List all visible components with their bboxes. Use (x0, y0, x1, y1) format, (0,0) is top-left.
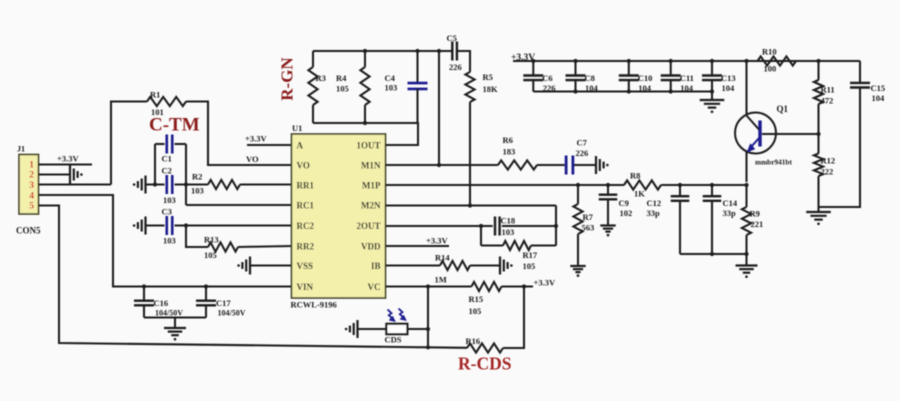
svg-text:105: 105 (336, 84, 349, 94)
svg-text:33p: 33p (647, 208, 661, 218)
wire VC node down to CDS (426, 287, 430, 350)
ground (CDS) (345, 320, 358, 338)
wire R15 to +3.3V (502, 284, 534, 288)
svg-text:M1N: M1N (361, 161, 381, 171)
label C6 (542, 73, 555, 93)
label RCWL-9196 (291, 300, 337, 310)
capacitor C14 (703, 185, 722, 254)
pin label M2N (361, 201, 381, 211)
pin label VIN (297, 282, 314, 292)
svg-text:IB: IB (371, 261, 381, 271)
pin label RR2 (297, 242, 315, 252)
power flag +3.3V (A pin) (245, 134, 267, 144)
svg-text:RC2: RC2 (297, 221, 315, 231)
svg-text:R-CDS: R-CDS (458, 354, 511, 374)
wire C16-C17 bottom (144, 316, 206, 318)
ground (C13) (700, 92, 725, 114)
pin label VO (297, 161, 310, 171)
ground (C9) (600, 226, 615, 237)
svg-text:C9: C9 (619, 198, 629, 208)
svg-text:102: 102 (620, 208, 633, 218)
wire C7 to ground (574, 164, 596, 166)
svg-text:33p: 33p (723, 208, 737, 218)
svg-text:R15: R15 (469, 294, 484, 304)
pin label IB (371, 261, 381, 271)
svg-text:R5: R5 (483, 72, 493, 82)
capacitor C12 (671, 185, 690, 254)
label R13 (204, 235, 219, 261)
wire VDD to +3.3V (386, 245, 450, 247)
svg-text:+3.3V: +3.3V (426, 236, 448, 246)
svg-text:3: 3 (29, 181, 34, 191)
wire +3.3V to A pin (247, 144, 292, 146)
svg-text:R12: R12 (821, 156, 836, 166)
label R6 (503, 135, 516, 157)
wire R1 left leg (111, 102, 147, 185)
label C8 (585, 73, 599, 93)
svg-text:104/50V: 104/50V (218, 309, 246, 318)
ground (R7) (570, 266, 585, 277)
svg-text:R13: R13 (204, 235, 219, 245)
svg-text:1: 1 (29, 161, 34, 171)
label Q1 (777, 104, 789, 114)
label C7 (576, 138, 589, 159)
resistor R12 (814, 134, 823, 212)
svg-text:R9: R9 (750, 209, 760, 219)
svg-text:C15: C15 (871, 83, 886, 93)
transistor Q1 base bar (758, 121, 761, 147)
svg-text:C14: C14 (723, 198, 738, 208)
pin label 2OUT (356, 221, 380, 231)
label C12 (647, 198, 662, 218)
wire R16 to VC (503, 287, 524, 349)
svg-text:C8: C8 (585, 73, 595, 83)
label R5 (483, 72, 499, 94)
svg-text:R-GN: R-GN (278, 57, 297, 101)
label C1 (162, 154, 172, 164)
svg-text:+3.3V: +3.3V (245, 134, 267, 144)
svg-text:R11: R11 (821, 85, 835, 95)
label R3 (316, 73, 326, 83)
capacitor C10 (619, 59, 639, 94)
svg-text:C3: C3 (162, 207, 172, 217)
svg-text:R7: R7 (583, 212, 594, 222)
wire C5 to R5 (457, 51, 470, 72)
label R11 (821, 85, 835, 106)
svg-text:C4: C4 (385, 73, 396, 83)
svg-text:VC: VC (368, 282, 381, 292)
wire J1 pin5 bottom rail (39, 206, 468, 348)
resistor R5 (465, 72, 474, 102)
capacitor C6 (523, 59, 543, 92)
resistor R16 (467, 343, 503, 352)
svg-text:CDS: CDS (385, 335, 402, 345)
svg-text:C2: C2 (162, 166, 172, 176)
pin label A (297, 141, 304, 151)
svg-text:VO: VO (297, 161, 310, 171)
svg-text:VO: VO (246, 154, 259, 164)
svg-text:+3.3V: +3.3V (534, 278, 556, 288)
svg-text:R3: R3 (316, 73, 326, 83)
svg-text:C-TM: C-TM (149, 115, 200, 136)
label R7 (582, 212, 595, 233)
wire M1N to R6 (386, 164, 499, 166)
pin label M1P (362, 181, 381, 191)
resistor R4 (360, 49, 369, 125)
svg-text:1M: 1M (435, 275, 447, 285)
wire C12/C14/R9 bottom rail (680, 252, 749, 256)
svg-text:R6: R6 (503, 135, 513, 145)
wire R1 to VO pin (186, 102, 292, 166)
svg-text:2OUT: 2OUT (356, 221, 380, 231)
capacitor C1 (155, 135, 186, 154)
resistor R1 (147, 97, 186, 106)
capacitor C15 (819, 61, 871, 207)
wire J1 pin3 to R1 branch (39, 183, 112, 185)
resistor R11 (814, 59, 823, 136)
node C18/R17 right bar (555, 206, 557, 246)
label C13 (721, 73, 736, 93)
ground (C3 left) (133, 217, 146, 235)
svg-text:R16: R16 (466, 336, 481, 346)
transistor Q1 emitter stroke (747, 137, 760, 153)
svg-text:18K: 18K (483, 84, 499, 94)
resistor R3 (308, 51, 317, 123)
capacitor C7 (566, 156, 573, 175)
svg-text:226: 226 (576, 148, 589, 158)
svg-text:CON5: CON5 (16, 226, 41, 236)
wire R14 to ground (470, 264, 500, 266)
svg-text:C13: C13 (721, 73, 736, 83)
svg-text:103: 103 (163, 195, 176, 205)
svg-text:222: 222 (821, 167, 834, 177)
svg-text:C18: C18 (501, 216, 516, 226)
wire R-GN bottom rail to 1OUT (313, 123, 418, 145)
svg-text:226: 226 (449, 62, 462, 72)
label C9 (619, 198, 633, 218)
wire Q1 emitter down (745, 151, 747, 182)
svg-text:J1: J1 (17, 145, 25, 154)
svg-text:RC1: RC1 (297, 201, 315, 211)
wire C3 node down to R13 (186, 226, 208, 248)
label C3 (162, 207, 176, 246)
label R10 (762, 47, 777, 74)
svg-text:VDD: VDD (361, 242, 381, 252)
resistor R7 (573, 185, 582, 266)
svg-text:104/50V: 104/50V (155, 309, 183, 318)
label CDS (385, 335, 402, 345)
svg-text:R14: R14 (435, 253, 450, 263)
ground (VSS) (237, 257, 250, 275)
pin label RC1 (297, 201, 315, 211)
node C1C2 right bar (184, 144, 188, 205)
svg-text:104: 104 (722, 83, 736, 93)
label R2 (191, 172, 204, 196)
svg-text:103: 103 (502, 227, 515, 237)
pin label RC2 (297, 221, 315, 231)
svg-text:R4: R4 (336, 73, 347, 83)
svg-text:R2: R2 (192, 172, 202, 182)
svg-text:M2N: M2N (361, 201, 381, 211)
photoresistor CDS body (386, 324, 407, 334)
label U1 (292, 123, 302, 133)
svg-text:R8: R8 (630, 171, 640, 181)
svg-text:2: 2 (29, 171, 34, 181)
wire J1 pin2 to ground (39, 173, 71, 175)
svg-text:R17: R17 (523, 250, 538, 260)
svg-text:104: 104 (872, 93, 886, 103)
capacitor C4 (408, 49, 428, 123)
wire R8 to Q1 emitter node (661, 183, 749, 187)
svg-text:105: 105 (204, 250, 217, 260)
svg-text:105: 105 (469, 306, 482, 316)
resistor R9 (742, 185, 751, 265)
label R8 (630, 171, 645, 199)
wire M2N line (386, 204, 557, 206)
transistor Q1 body (735, 113, 776, 154)
label C14 (723, 198, 738, 218)
svg-text:Q1: Q1 (777, 104, 789, 114)
label C11 (680, 73, 694, 93)
wire J1 pin1 to +3.3V (39, 163, 93, 165)
label R-CDS (458, 354, 511, 374)
wire R6 to C7 (537, 164, 565, 166)
label C-TM (149, 115, 200, 136)
capacitor C17 (196, 284, 216, 317)
power flag +3.3V (rail) (511, 53, 535, 63)
pin label VDD (361, 242, 381, 252)
capacitor C5 (447, 33, 462, 72)
wire R2 to RR1 (240, 183, 292, 185)
svg-text:C10: C10 (638, 73, 653, 83)
svg-text:C6: C6 (542, 73, 552, 83)
transistor Q1 collector stroke (747, 116, 760, 130)
wire IB to R14 (386, 264, 441, 266)
svg-text:472: 472 (821, 96, 834, 106)
svg-text:U1: U1 (292, 123, 302, 133)
resistor R13 (208, 242, 238, 251)
svg-text:100: 100 (764, 64, 777, 74)
ground (J1 pin2) (70, 166, 83, 184)
svg-text:VIN: VIN (297, 282, 314, 292)
wire to RC1 (186, 204, 292, 206)
J1 pin numbers 1-5 (29, 161, 34, 212)
svg-text:103: 103 (385, 83, 398, 93)
resistor R14 (440, 261, 470, 270)
svg-text:C16: C16 (154, 298, 169, 308)
svg-text:mmbr941bt: mmbr941bt (755, 158, 792, 167)
svg-text:M1P: M1P (362, 181, 381, 191)
pin label M1N (361, 161, 381, 171)
op-amp U1 RCWL-9196 body (292, 134, 386, 298)
wire M1P line (386, 183, 625, 187)
photoresistor CDS light arrows (388, 309, 407, 323)
label C2 (162, 166, 172, 176)
label VO (246, 154, 259, 164)
wire ground to C2 (146, 183, 165, 185)
wire ground to CDS (358, 328, 387, 330)
wire rail branch to M1N (437, 49, 441, 167)
wire rail to Q1 collector (744, 59, 748, 116)
capacitor C9 (599, 185, 618, 226)
label R12 (821, 156, 836, 177)
wire R13 to RR2 (238, 246, 292, 247)
power flag +3.3V (J1) (57, 154, 79, 164)
label R17 (523, 250, 538, 271)
label R4 (336, 73, 349, 94)
svg-text:1OUT: 1OUT (356, 141, 380, 151)
connector J1 (CON5) (16, 145, 41, 236)
wire 2OUT line (386, 224, 493, 228)
capacitor C13 (702, 59, 722, 94)
ground (C2 left) (133, 176, 146, 194)
wire R5 to M2N line (468, 102, 472, 208)
label R-GN (278, 57, 297, 101)
svg-text:+3.3V: +3.3V (57, 154, 79, 164)
wire ground to C3 (146, 224, 165, 226)
svg-text:C11: C11 (680, 73, 694, 83)
label R15 (469, 294, 484, 316)
label C18 (501, 216, 516, 238)
label R16 (466, 336, 481, 346)
ground (IB) (500, 257, 513, 275)
svg-text:C12: C12 (647, 198, 662, 208)
pin label RR1 (297, 181, 315, 191)
svg-text:C7: C7 (577, 138, 588, 148)
power flag +3.3V (VC) (534, 278, 556, 288)
resistor R10 (758, 56, 797, 65)
capacitor C2 (167, 175, 208, 194)
capacitor C3 (167, 216, 292, 235)
label C10 (638, 73, 653, 93)
node C18/R17 left bar (480, 226, 482, 246)
svg-text:RCWL-9196: RCWL-9196 (291, 300, 337, 310)
svg-text:RR2: RR2 (297, 242, 315, 252)
pin label 1OUT (356, 141, 380, 151)
wire VC line (386, 284, 472, 288)
svg-text:A: A (297, 141, 304, 151)
label C17 (216, 298, 246, 318)
svg-text:563: 563 (582, 223, 595, 233)
svg-text:5: 5 (29, 202, 34, 212)
resistor R17 (481, 241, 556, 250)
resistor R8 (624, 180, 661, 189)
capacitor C16 (134, 284, 154, 317)
svg-text:C5: C5 (447, 33, 457, 43)
label R14 (435, 253, 451, 285)
resistor R6 (498, 160, 537, 169)
ground (R12/C15) (806, 212, 831, 225)
label R1 (150, 90, 164, 118)
svg-text:103: 103 (163, 236, 176, 246)
wire bypass bottom rail (533, 90, 712, 92)
svg-text:105: 105 (523, 261, 536, 271)
svg-text:183: 183 (503, 147, 516, 157)
wire J1 pin4 to VIN net (39, 195, 292, 287)
wire +3.3V rail (513, 60, 860, 62)
svg-text:103: 103 (191, 186, 204, 196)
node C1C2 left bar (153, 144, 157, 187)
capacitor C11 (661, 59, 681, 94)
label C2 value (163, 195, 176, 205)
label C16 (154, 298, 184, 318)
ground (R9) (736, 266, 758, 279)
svg-text:1K: 1K (634, 189, 645, 199)
svg-text:C1: C1 (162, 154, 172, 164)
label C4 (385, 73, 398, 93)
wire R-GN top rail (313, 50, 452, 52)
ground (C7) (596, 156, 609, 174)
svg-text:R10: R10 (762, 47, 777, 57)
wire Q1 base to R11/R12 (762, 133, 819, 135)
label R9 (750, 209, 764, 230)
wire CDS to node (407, 328, 428, 330)
resistor R2 (208, 180, 240, 189)
power flag +3.3V (VDD) (426, 236, 448, 246)
svg-text:RR1: RR1 (297, 181, 315, 191)
resistor R15 (472, 282, 502, 291)
pin label VSS (297, 261, 314, 271)
label C15 (871, 83, 886, 103)
svg-text:C17: C17 (216, 298, 231, 308)
capacitor C18 (495, 217, 558, 236)
capacitor C8 (566, 59, 586, 94)
svg-text:R1: R1 (150, 90, 160, 100)
svg-text:VSS: VSS (297, 261, 314, 271)
svg-text:4: 4 (29, 192, 34, 202)
ground (C16/C17) (164, 318, 186, 341)
label mmbr941bt (755, 158, 792, 167)
wire ground to VSS (250, 264, 292, 266)
svg-text:221: 221 (751, 219, 764, 229)
pin label VC (368, 282, 381, 292)
